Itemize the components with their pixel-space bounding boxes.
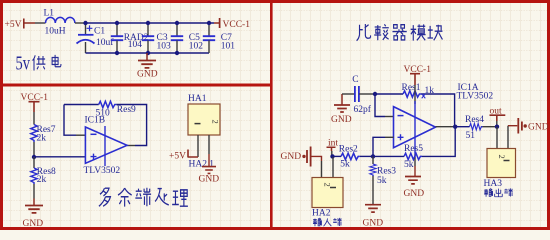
svg-text:5k: 5k [404, 160, 414, 170]
wire VCC-1 to op-amp power pin [414, 85, 416, 104]
pin 2 wire HA1 to ground [208, 135, 210, 154]
power port int [327, 139, 339, 151]
junction out node [495, 125, 499, 129]
power port VCC-1 (box3) [404, 65, 432, 85]
wire VCC-1 to Res7 [33, 112, 35, 125]
wire output pin [127, 145, 135, 147]
wire Res7 to node [33, 142, 35, 157]
svg-text:1: 1 [209, 159, 214, 169]
ground symbol below Res3 [363, 205, 384, 229]
capacitor C7 [203, 23, 236, 53]
wire - input pin [76, 134, 85, 136]
svg-text:TLV3502: TLV3502 [457, 92, 494, 102]
capacitor C3 [142, 23, 171, 53]
power port +5V (box2) [169, 150, 198, 162]
power port GND (left, input side) [281, 147, 311, 167]
wire +5V to L1 [35, 22, 46, 24]
wire C to node B [359, 93, 375, 95]
junction node B [373, 92, 377, 96]
svg-text:2k: 2k [37, 134, 47, 144]
svg-text:HA1: HA1 [188, 94, 207, 104]
svg-text:HA3: HA3 [484, 179, 503, 189]
svg-text:+5V: +5V [5, 20, 22, 30]
connector HA2 (input) [312, 178, 343, 219]
ground symbol at C [331, 94, 352, 125]
ground symbol box2 left [23, 199, 44, 230]
svg-text:2: 2 [497, 155, 507, 159]
svg-text:5k: 5k [377, 176, 387, 186]
wire output pin [436, 126, 456, 128]
wire out node to HA3 pin 1 [496, 127, 498, 149]
svg-text:TLV3502: TLV3502 [84, 166, 121, 176]
svg-text:51: 51 [466, 131, 476, 141]
wire Res2 to node D [360, 155, 373, 157]
wire bottom rail [86, 52, 210, 54]
wire Res8 to ground [33, 184, 35, 199]
wire node to op-amp + input [34, 156, 85, 158]
svg-text:Res9: Res9 [117, 105, 136, 115]
capacitor RAD2 [111, 23, 149, 53]
wire node B to feedback corner [375, 94, 455, 127]
junction node D [371, 154, 375, 158]
wire op-amp V- pin to ground [414, 154, 416, 166]
wire Res3 to ground [372, 176, 374, 205]
svg-text:C1: C1 [94, 26, 105, 36]
title duoyuduan chuli [99, 188, 188, 207]
svg-text:Res5: Res5 [404, 144, 423, 154]
svg-text:2: 2 [211, 120, 221, 124]
svg-text:GND: GND [331, 115, 352, 125]
pin 1 wire HA1 [197, 135, 199, 157]
wire out stub [496, 121, 498, 127]
resistor Res3 5k (to ground) [370, 156, 396, 186]
power port VCC-1 (box2) [21, 93, 49, 112]
wire top rail [86, 22, 215, 24]
resistor Res8 2k [31, 157, 56, 185]
power port +5V [5, 19, 36, 30]
ground symbol box2 right [199, 167, 220, 185]
wire node D to Res5 [373, 155, 404, 157]
title bijiaoqi mokuai [357, 24, 443, 41]
node junction Res7/Res8 [32, 155, 36, 159]
svg-text:2k: 2k [37, 175, 47, 185]
svg-text:Res1: Res1 [402, 83, 421, 93]
svg-text:10uf: 10uf [96, 37, 114, 48]
inductor L1 [44, 9, 75, 37]
wire GND port to HA2 pin 1 [312, 156, 322, 161]
connector HA3 (output) [484, 149, 516, 190]
op-amp IC1B TLV3502 [84, 116, 128, 176]
svg-text:GND: GND [528, 123, 549, 133]
capacitor C5 [171, 23, 204, 53]
svg-text:C: C [352, 75, 358, 85]
junction output node [453, 125, 457, 129]
wire Res5 to output node [422, 127, 455, 157]
svg-text:HA2: HA2 [189, 159, 208, 169]
svg-text:5v: 5v [16, 53, 31, 75]
ground symbol below op-amp [404, 177, 425, 200]
wire HA2 pin 2 [332, 156, 334, 177]
svg-text:101: 101 [221, 41, 236, 51]
junction dots bottom rail [115, 51, 179, 55]
svg-text:10uH: 10uH [45, 27, 66, 37]
svg-text:VCC-1: VCC-1 [223, 20, 251, 30]
divider between left boxes and right box [270, 0, 273, 230]
label output side [484, 188, 513, 196]
resistor Res9 510 [96, 101, 137, 118]
svg-text:103: 103 [157, 41, 172, 51]
power port out [490, 107, 506, 122]
wire node C to Res2 [333, 155, 342, 157]
svg-text:HA2: HA2 [312, 208, 331, 218]
resistor Res2 5k [339, 145, 360, 170]
power port GND (right, output side) [518, 118, 548, 134]
junction node C [330, 154, 334, 158]
svg-text:Res4: Res4 [465, 115, 484, 125]
svg-text:+5V: +5V [169, 151, 186, 161]
wire HA3 pin 2 to GND port [507, 126, 509, 149]
capacitor C 62pf [352, 75, 371, 115]
svg-text:GND: GND [281, 152, 302, 162]
label HA2 1 [189, 159, 215, 169]
svg-text:2: 2 [323, 183, 333, 187]
resistor Res5 (hysteresis) [404, 144, 423, 170]
svg-text:Res3: Res3 [377, 167, 396, 177]
wire L1 to node A [75, 22, 86, 24]
wire red stub to VCC-1 port [214, 22, 219, 24]
svg-text:GND: GND [404, 189, 425, 199]
svg-text:GND: GND [23, 219, 44, 229]
svg-text:62pf: 62pf [354, 104, 372, 115]
junction dots top rail [83, 21, 211, 25]
svg-text:L1: L1 [44, 9, 55, 19]
svg-text:IC1B: IC1B [85, 116, 106, 126]
svg-text:Res2: Res2 [339, 145, 358, 155]
divider between top-left and bottom-left boxes [0, 84, 273, 87]
resistor Res7 2k [31, 125, 56, 144]
wire int to node C [331, 151, 333, 156]
wire node B down to - input [375, 94, 385, 117]
svg-text:102: 102 [189, 41, 204, 51]
wire node D up to + input [373, 137, 385, 156]
ground symbol box1 [137, 53, 158, 80]
wire gnd to C [342, 93, 355, 95]
feedback wire loop (output to - input) [64, 105, 147, 146]
svg-text:GND: GND [363, 219, 384, 229]
capacitor C1 (polarized) [77, 23, 115, 53]
svg-text:GND: GND [137, 70, 158, 80]
svg-text:1k: 1k [425, 86, 435, 96]
resistor Res1 1k [402, 83, 435, 98]
svg-text:104: 104 [128, 40, 143, 50]
wire Res4 to out node [483, 126, 498, 128]
svg-text:GND: GND [199, 174, 220, 184]
title 5v gongdian [16, 53, 61, 75]
connector HA1 [188, 94, 221, 135]
resistor Res4 51 [465, 115, 484, 141]
wire output to Res4 [455, 126, 469, 128]
power port VCC-1 [220, 18, 251, 30]
op-amp IC1A TLV3502 [394, 83, 494, 154]
label input side [313, 218, 342, 226]
svg-text:5k: 5k [340, 159, 350, 169]
